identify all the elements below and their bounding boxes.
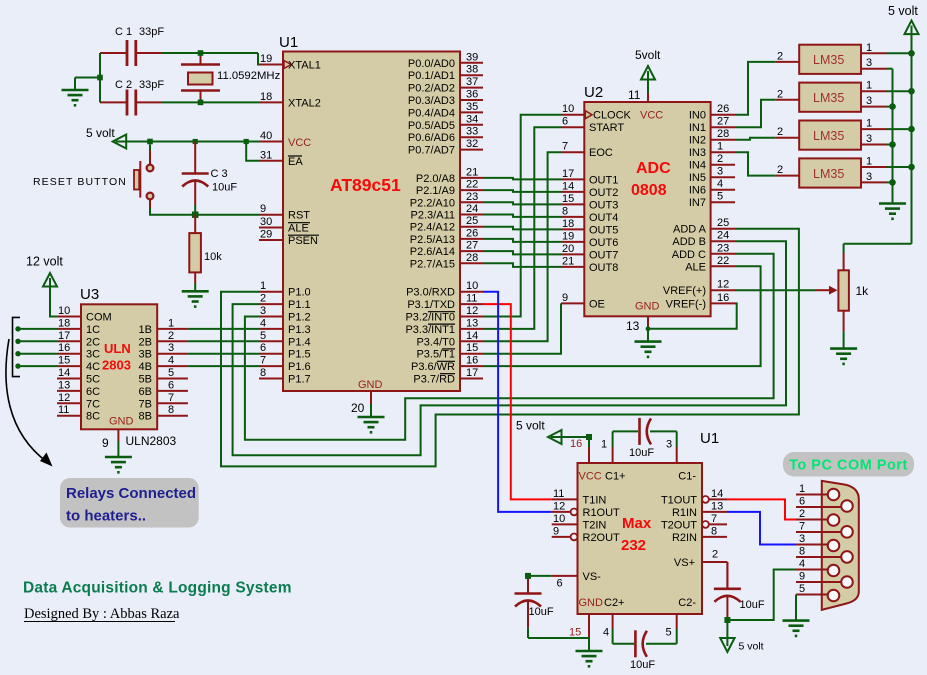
svg-text:Data Acquisition & Logging: Data Acquisition & Logging System [23, 580, 292, 597]
wire ALE(ADC) to P3.6 [483, 266, 761, 366]
svg-text:7: 7 [711, 513, 717, 525]
wire left cap rail [75, 53, 100, 102]
svg-text:5: 5 [260, 330, 266, 342]
svg-text:EOC: EOC [589, 147, 613, 159]
svg-text:C 2: C 2 [115, 79, 132, 91]
svg-text:5: 5 [799, 583, 805, 595]
capacitor C4 10uF top of max232 [601, 418, 677, 463]
power 5 volt down arrow [720, 620, 763, 653]
svg-text:5 volt: 5 volt [86, 126, 115, 140]
svg-text:P3.5/T1: P3.5/T1 [416, 349, 455, 361]
wire 5V to DB9 pin4 [727, 570, 796, 621]
svg-text:P1.2: P1.2 [288, 312, 311, 324]
svg-text:VCC: VCC [640, 110, 663, 122]
svg-text:7B: 7B [139, 398, 152, 410]
svg-text:2: 2 [777, 164, 783, 176]
svg-text:26: 26 [466, 227, 478, 239]
svg-text:6C: 6C [86, 386, 100, 398]
svg-text:1: 1 [260, 280, 266, 292]
wire blue R1IN to DB9 pin3 [727, 512, 796, 545]
svg-text:IN0: IN0 [689, 110, 706, 122]
svg-text:IN1: IN1 [689, 122, 706, 134]
svg-text:AT89c51: AT89c51 [330, 175, 401, 195]
wire DB9 pin5 to ground [795, 595, 797, 621]
wire RXD blue P3.0 to R1OUT [483, 292, 552, 512]
IC U3 ULN 2803 body [80, 286, 157, 429]
svg-text:P2.2/A10: P2.2/A10 [410, 197, 455, 209]
svg-text:1B: 1B [139, 324, 152, 336]
svg-text:1: 1 [601, 439, 607, 451]
resistor R1 10k [189, 215, 222, 292]
svg-text:17: 17 [58, 330, 70, 342]
svg-text:3: 3 [260, 305, 266, 317]
power 5 volt arrow top right [888, 4, 919, 36]
svg-text:VS+: VS+ [674, 557, 695, 569]
svg-text:1k: 1k [856, 284, 870, 298]
svg-text:P3.4/T0: P3.4/T0 [416, 336, 455, 348]
svg-text:OUT1: OUT1 [589, 174, 618, 186]
svg-text:4: 4 [799, 558, 805, 570]
svg-text:5: 5 [168, 367, 174, 379]
svg-text:LM35: LM35 [813, 91, 844, 105]
svg-text:Relays Connected: Relays Connected [66, 485, 196, 502]
svg-text:ULN2803: ULN2803 [126, 434, 177, 448]
svg-text:U2: U2 [584, 84, 603, 101]
node 5V rail LM35 2 [908, 88, 915, 95]
svg-text:GND: GND [635, 301, 660, 313]
svg-text:P3.0/RXD: P3.0/RXD [406, 287, 455, 299]
wire IN1 to LM35 2 [735, 100, 775, 127]
svg-text:VCC: VCC [288, 137, 311, 149]
svg-text:14: 14 [466, 330, 478, 342]
node relay wire end 2 [15, 339, 20, 344]
svg-text:OUT5: OUT5 [589, 224, 618, 236]
svg-text:C 1: C 1 [115, 26, 132, 38]
wire IN0 to LM35 1 [735, 62, 775, 115]
wire IN3 to LM35 4 [735, 152, 775, 175]
U2 pin 13 GND stub [626, 316, 648, 341]
wire VREF(-) to ground net [648, 303, 737, 328]
node crystal bottom junction [198, 100, 204, 106]
svg-text:15: 15 [562, 193, 574, 205]
svg-text:P2.7/A15: P2.7/A15 [410, 258, 455, 270]
svg-text:33: 33 [466, 126, 478, 138]
svg-text:11.0592MHz: 11.0592MHz [217, 70, 281, 82]
svg-text:37: 37 [466, 76, 478, 88]
wire START to P3.3 [483, 127, 561, 329]
svg-text:13: 13 [711, 500, 723, 512]
svg-text:32: 32 [466, 138, 478, 150]
svg-text:6: 6 [562, 116, 568, 128]
node relay wire end 1 [15, 326, 20, 331]
svg-text:U1: U1 [279, 34, 298, 51]
svg-text:P1.6: P1.6 [288, 361, 311, 373]
svg-text:R1IN: R1IN [672, 507, 697, 519]
svg-text:15: 15 [569, 627, 581, 639]
svg-text:1: 1 [866, 42, 872, 54]
svg-text:LM35: LM35 [813, 53, 844, 67]
svg-text:8B: 8B [139, 411, 152, 423]
bracket annotation [13, 317, 21, 376]
svg-text:8: 8 [799, 546, 805, 558]
svg-text:4: 4 [717, 178, 723, 190]
svg-text:12: 12 [553, 500, 565, 512]
svg-text:3: 3 [799, 533, 805, 545]
svg-text:P3.7/RD: P3.7/RD [413, 374, 455, 386]
svg-text:10: 10 [466, 280, 478, 292]
wire pot bottom to ground [843, 331, 845, 348]
svg-text:6: 6 [168, 379, 174, 391]
wire 5V to pot top [843, 244, 845, 253]
svg-text:2: 2 [799, 508, 805, 520]
svg-text:P3.2/INT0: P3.2/INT0 [405, 312, 455, 324]
svg-text:P1.1: P1.1 [288, 299, 311, 311]
svg-text:15: 15 [58, 355, 70, 367]
capacitor C6 10uF at VS- [515, 576, 590, 638]
svg-text:P1.4: P1.4 [288, 336, 311, 348]
wire LM35 gnd rail [892, 69, 894, 204]
node cap rail junction [97, 75, 103, 81]
wire 5V rail right [844, 34, 912, 244]
svg-text:2: 2 [777, 126, 783, 138]
svg-text:R1OUT: R1OUT [583, 507, 621, 519]
svg-text:T1IN: T1IN [583, 494, 607, 506]
svg-text:3: 3 [666, 439, 672, 451]
svg-text:P2.0/A8: P2.0/A8 [416, 173, 455, 185]
svg-text:8: 8 [260, 367, 266, 379]
wire VCC rail [126, 141, 259, 143]
svg-text:3C: 3C [86, 349, 100, 361]
ground below DB9 [783, 621, 810, 636]
svg-text:GND: GND [358, 379, 383, 391]
U2 left pins with numbers [561, 103, 632, 310]
node 5V rail LM35 3 [908, 126, 915, 133]
svg-text:P1.3: P1.3 [288, 324, 311, 336]
IC U1 AT89c51 microcontroller body [279, 34, 460, 391]
ground left of C1 C2 [62, 90, 89, 105]
svg-text:T2IN: T2IN [583, 519, 607, 531]
arrow annotation to relays note [6, 339, 53, 467]
svg-text:10uF: 10uF [529, 606, 554, 618]
node 5V rail LM35 1 [908, 50, 915, 57]
svg-text:39: 39 [466, 51, 478, 63]
svg-text:CLOCK: CLOCK [593, 110, 632, 122]
node VS- junction [525, 573, 531, 579]
wire EOC to P3.4 [483, 152, 561, 341]
svg-text:9: 9 [102, 436, 109, 450]
ground below pot [830, 349, 857, 364]
svg-text:31: 31 [260, 149, 272, 161]
svg-text:1: 1 [866, 118, 872, 130]
svg-text:16: 16 [717, 292, 729, 304]
svg-text:24: 24 [466, 203, 478, 215]
svg-text:3B: 3B [139, 349, 152, 361]
svg-text:0808: 0808 [631, 182, 667, 199]
node VCC-EA junction [244, 139, 249, 144]
svg-text:P3.3/INT1: P3.3/INT1 [405, 324, 455, 336]
svg-text:8: 8 [711, 525, 717, 537]
wire EA to VCC rail [246, 142, 259, 161]
svg-text:10uF: 10uF [212, 182, 237, 194]
svg-text:C 3: C 3 [211, 168, 228, 180]
svg-text:OUT4: OUT4 [589, 212, 618, 224]
node ADC gnd junction [646, 326, 651, 331]
switch RESET BUTTON [33, 161, 153, 199]
svg-text:P0.1/AD1: P0.1/AD1 [408, 70, 455, 82]
svg-text:5 volt: 5 volt [739, 641, 764, 653]
svg-text:1C: 1C [86, 324, 100, 336]
svg-text:16: 16 [58, 342, 70, 354]
svg-text:RESET BUTTON: RESET BUTTON [33, 176, 127, 188]
power 5volt arrow above U2 [635, 48, 661, 82]
capacitor C7 10uF at VS+ [714, 562, 765, 620]
svg-text:PSEN: PSEN [288, 235, 318, 247]
wire P2.0-OUT1 bus [483, 178, 561, 267]
svg-text:11: 11 [58, 404, 69, 416]
svg-text:P0.0/AD0: P0.0/AD0 [408, 58, 455, 70]
svg-text:23: 23 [466, 191, 478, 203]
wire U3 outputs 1B-4B to P1.3-P1.6 [188, 329, 259, 366]
ground LM35 rail [879, 204, 906, 219]
svg-text:P1.5: P1.5 [288, 349, 311, 361]
svg-text:2: 2 [168, 330, 174, 342]
wire ADD B to P1.1 [233, 241, 786, 455]
wire CLOCK to P3.2 [483, 115, 561, 317]
svg-text:7C: 7C [86, 398, 100, 410]
svg-text:P3.1/TXD: P3.1/TXD [407, 299, 455, 311]
svg-text:14: 14 [711, 488, 723, 500]
svg-text:VCC: VCC [579, 471, 602, 483]
svg-text:3: 3 [866, 57, 872, 69]
svg-text:26: 26 [717, 103, 729, 115]
connector J1 DB9 to PC [822, 481, 859, 610]
DB9 pin stubs with numbers [796, 483, 842, 595]
U2 right pins with numbers [663, 103, 735, 310]
power 5 volt arrow to max232 [516, 419, 564, 445]
svg-text:LM35: LM35 [813, 167, 844, 181]
U3 right pins with numbers [139, 317, 188, 422]
node gnd rail LM35 4 [889, 179, 896, 186]
svg-text:23: 23 [717, 242, 729, 254]
capacitor C2 33pF [100, 79, 164, 116]
svg-text:14: 14 [562, 180, 574, 192]
svg-text:34: 34 [466, 113, 478, 125]
svg-text:25: 25 [466, 215, 478, 227]
svg-text:9: 9 [553, 525, 559, 537]
svg-text:3: 3 [866, 95, 872, 107]
node 5V rail LM35 4 [908, 164, 915, 171]
node VCC-C3 junction [193, 139, 198, 144]
svg-text:VREF(+): VREF(+) [663, 285, 706, 297]
svg-text:35: 35 [466, 101, 478, 113]
svg-text:T1OUT: T1OUT [661, 494, 697, 506]
svg-text:5volt: 5volt [635, 48, 661, 62]
svg-text:5: 5 [666, 627, 672, 639]
ground below U2 [635, 342, 662, 357]
svg-text:8: 8 [562, 205, 568, 217]
svg-text:27: 27 [717, 116, 729, 128]
svg-text:OUT2: OUT2 [589, 187, 618, 199]
svg-text:2803: 2803 [102, 358, 131, 373]
svg-text:3: 3 [866, 133, 872, 145]
svg-text:P1.7: P1.7 [288, 374, 311, 386]
IC U2 ADC 0808 body [584, 84, 711, 316]
wire red T1OUT to DB9 pin2 [727, 499, 796, 519]
U1 pin 15 GND stub [569, 614, 589, 651]
node max232 vcc junction [586, 434, 592, 440]
U1 max232 left pins [552, 488, 620, 590]
node relay wire end 4 [15, 363, 20, 368]
svg-text:2C: 2C [86, 336, 100, 348]
wire 12V to COM [50, 287, 57, 317]
svg-text:LM35: LM35 [813, 129, 844, 143]
svg-text:30: 30 [260, 216, 272, 228]
svg-text:8C: 8C [86, 411, 100, 423]
svg-text:9: 9 [562, 292, 568, 304]
svg-text:13: 13 [466, 317, 478, 329]
svg-text:4: 4 [168, 355, 174, 367]
svg-text:Designed By : Abbas Raza: Designed By : Abbas Raza [24, 606, 180, 622]
svg-text:12 volt: 12 volt [26, 255, 63, 269]
svg-text:IN7: IN7 [689, 197, 706, 209]
svg-text:OE: OE [589, 298, 605, 310]
U1 left pins with numbers [259, 53, 321, 386]
svg-text:22: 22 [466, 179, 478, 191]
node VCC-button junction [147, 139, 153, 145]
svg-text:P1.0: P1.0 [288, 287, 311, 299]
svg-text:U3: U3 [80, 286, 99, 303]
svg-text:ADD C: ADD C [672, 249, 706, 261]
svg-text:ADD B: ADD B [672, 236, 706, 248]
svg-text:33pF: 33pF [139, 79, 164, 91]
svg-text:10: 10 [553, 513, 565, 525]
svg-text:21: 21 [466, 166, 478, 178]
svg-text:C2-: C2- [678, 597, 696, 609]
ground below U1 pin 20 [358, 417, 385, 432]
svg-text:17: 17 [562, 168, 574, 180]
svg-text:16: 16 [466, 355, 478, 367]
wire XTAL1 net [162, 53, 259, 65]
wire U3 inputs 1C-4C [18, 329, 57, 366]
svg-text:11: 11 [466, 293, 477, 305]
svg-text:2B: 2B [139, 336, 152, 348]
svg-text:VS-: VS- [583, 571, 602, 583]
svg-text:P2.5/A13: P2.5/A13 [410, 234, 455, 246]
svg-text:7: 7 [562, 141, 568, 153]
capacitor C1 33pF [100, 26, 164, 66]
svg-text:5 volt: 5 volt [888, 4, 918, 18]
svg-text:P2.3/A11: P2.3/A11 [411, 210, 455, 222]
power 12 volt arrow [26, 255, 63, 289]
svg-text:6: 6 [799, 496, 805, 508]
svg-text:1: 1 [717, 141, 723, 153]
wire button bottom to RST [150, 200, 259, 215]
svg-text:6: 6 [260, 342, 266, 354]
svg-text:OUT8: OUT8 [589, 262, 618, 274]
node crystal top junction [198, 50, 204, 56]
U3 pin 9 GND stub [102, 429, 177, 457]
node VS+ cap junction [724, 617, 730, 623]
svg-text:8: 8 [168, 404, 174, 416]
svg-text:IN6: IN6 [689, 185, 706, 197]
svg-text:2: 2 [777, 50, 783, 62]
svg-text:22: 22 [717, 255, 729, 267]
svg-text:C1+: C1+ [605, 471, 626, 483]
svg-text:P2.4/A12: P2.4/A12 [410, 222, 455, 234]
svg-text:5: 5 [717, 191, 723, 203]
svg-text:7: 7 [260, 355, 266, 367]
svg-text:24: 24 [717, 230, 729, 242]
svg-text:1: 1 [866, 156, 872, 168]
sensor LM35 number 1 [775, 42, 911, 74]
svg-text:18: 18 [58, 317, 70, 329]
svg-text:18: 18 [260, 91, 272, 103]
svg-text:P2.1/A9: P2.1/A9 [416, 185, 455, 197]
svg-text:18: 18 [562, 218, 574, 230]
svg-text:10k: 10k [204, 251, 222, 263]
svg-text:19: 19 [562, 230, 574, 242]
U1 pin 16 VCC stub [562, 437, 590, 463]
svg-text:15: 15 [466, 342, 478, 354]
svg-text:OUT3: OUT3 [589, 199, 618, 211]
svg-text:C1-: C1- [678, 471, 696, 483]
svg-text:1: 1 [168, 317, 174, 329]
note relays connected to heaters [60, 478, 199, 528]
svg-text:R2IN: R2IN [672, 532, 697, 544]
svg-text:ADD A: ADD A [673, 224, 707, 236]
svg-text:P0.6/AD6: P0.6/AD6 [408, 132, 455, 144]
svg-text:U1: U1 [700, 430, 719, 447]
wire OE to P3.5 [483, 303, 561, 353]
svg-text:7: 7 [168, 392, 174, 404]
svg-text:R2OUT: R2OUT [583, 532, 621, 544]
svg-text:to heaters..: to heaters.. [66, 508, 146, 525]
U2 pin 11 VCC stub [628, 80, 648, 102]
node RST junction [192, 211, 199, 218]
sensor LM35 number 4 [775, 156, 911, 188]
wire button top [149, 145, 151, 151]
svg-text:XTAL1: XTAL1 [288, 60, 321, 72]
svg-text:4C: 4C [86, 361, 100, 373]
capacitor C5 10uF bottom of max232 [603, 614, 677, 671]
svg-text:START: START [589, 122, 624, 134]
svg-text:P0.2/AD2: P0.2/AD2 [408, 83, 455, 95]
capacitor C3 10uF [182, 142, 238, 215]
svg-text:GND: GND [579, 597, 604, 609]
svg-text:1: 1 [799, 483, 805, 495]
U1 max232 right pins [661, 488, 727, 562]
svg-text:28: 28 [466, 252, 478, 264]
svg-text:19: 19 [260, 53, 272, 65]
ground below 10k [182, 291, 209, 306]
svg-text:12: 12 [58, 392, 70, 404]
svg-text:P0.5/AD5: P0.5/AD5 [408, 120, 455, 132]
svg-text:10uF: 10uF [740, 599, 765, 611]
svg-text:9: 9 [799, 571, 805, 583]
svg-text:29: 29 [260, 229, 272, 241]
node relay wire end 3 [15, 351, 20, 356]
svg-text:13: 13 [626, 319, 640, 333]
svg-text:3: 3 [168, 342, 174, 354]
U3 left pins with numbers [57, 305, 112, 423]
svg-text:P0.7/AD7: P0.7/AD7 [408, 145, 455, 157]
resistor RV1 1k potentiometer [838, 253, 869, 331]
svg-text:6: 6 [557, 578, 563, 590]
svg-text:20: 20 [562, 243, 574, 255]
svg-text:C2+: C2+ [604, 597, 625, 609]
svg-text:OUT7: OUT7 [589, 249, 618, 261]
svg-text:Max: Max [622, 515, 652, 532]
